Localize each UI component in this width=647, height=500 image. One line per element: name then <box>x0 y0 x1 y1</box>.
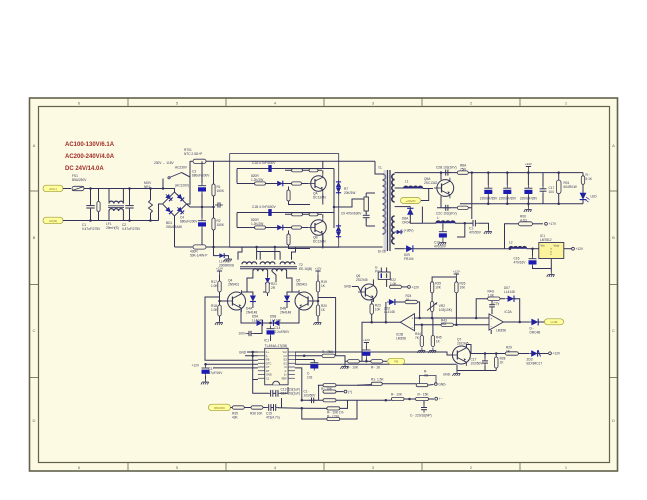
wire C12 gnd <box>205 376 207 379</box>
svg-text:1.0K: 1.0K <box>211 284 218 288</box>
junction NR1 bottom <box>149 219 152 222</box>
capacitor C1B body <box>269 209 272 216</box>
svg-text:+17V: +17V <box>549 222 557 226</box>
resistor R5B <box>309 213 318 216</box>
svg-text:LM358: LM358 <box>396 336 406 340</box>
wire Q5 base <box>310 300 319 302</box>
svg-text:2SC1342: 2SC1342 <box>424 181 438 185</box>
svg-text:20K/3W: 20K/3W <box>344 191 355 195</box>
resistor R0 bleeder <box>97 202 100 212</box>
resistor R40 <box>322 354 335 357</box>
vertical link right pins <box>294 352 296 364</box>
junction snubber right <box>471 171 474 174</box>
wire C13 bot lead <box>506 196 508 204</box>
svg-text:C1B 4.7nF/600V: C1B 4.7nF/600V <box>252 205 276 209</box>
svg-text:2N5401: 2N5401 <box>228 282 239 286</box>
wire ACL to fuse <box>63 188 71 190</box>
svg-text:LL4148: LL4148 <box>252 318 263 322</box>
wire R18 gnd <box>219 316 221 321</box>
transistor Q6 <box>358 282 377 302</box>
svg-text:DRC4B: DRC4B <box>530 330 541 334</box>
svg-text:C2B 103(1KV): C2B 103(1KV) <box>436 166 457 170</box>
inductor L3 <box>509 241 527 249</box>
svg-text:IC2A: IC2A <box>505 310 513 314</box>
wire sec tap3 <box>395 206 411 208</box>
wire W1 link to T1 <box>366 192 375 194</box>
diode D6 bleed <box>217 253 226 258</box>
capacitor C1 <box>86 203 94 211</box>
wire cellA base row <box>237 183 308 185</box>
wire QB emitter <box>322 237 324 248</box>
wire stub down left <box>457 223 465 237</box>
wire bleed to gnd <box>224 256 228 258</box>
junction C1 bottom <box>89 219 92 222</box>
junction row400 b <box>301 399 304 402</box>
resistor R6B <box>287 234 290 245</box>
svg-text:DC12AN: DC12AN <box>313 239 326 243</box>
wire IC2A minus col <box>490 330 492 334</box>
wire C3 column <box>201 161 203 183</box>
resistor R53 <box>327 407 340 410</box>
wire R24 down <box>417 302 419 318</box>
ground under C12 <box>201 379 209 384</box>
svg-text:2200uF/35V: 2200uF/35V <box>520 197 538 201</box>
wire R17 top <box>219 275 221 281</box>
bridge diode D-d <box>175 205 185 215</box>
inductor LF1 core <box>108 206 124 208</box>
wire Q5A emitter down <box>440 196 442 208</box>
wire U2 out to R22 <box>386 279 388 287</box>
svg-text:50K-1/4W·P: 50K-1/4W·P <box>190 253 207 257</box>
svg-text:DC 24V/14.0A: DC 24V/14.0A <box>65 166 104 172</box>
svg-text:(+): (+) <box>348 390 352 394</box>
svg-text:2200uF/35V: 2200uF/35V <box>480 197 498 201</box>
diode D13 <box>272 320 282 326</box>
wire T2 top bus b <box>256 247 258 260</box>
svg-text:AC100-130V/6.1A: AC100-130V/6.1A <box>65 142 115 148</box>
net label DRV24 <box>401 198 421 204</box>
diode D09 <box>404 245 415 252</box>
wire C9 down <box>365 219 367 226</box>
junction pin1 <box>251 351 254 354</box>
transistor Q5A <box>434 178 454 199</box>
power +24V flag <box>525 162 532 171</box>
diode D2A <box>275 181 285 187</box>
wire C21 bot <box>484 366 486 371</box>
optocoupler U2 body <box>378 272 390 279</box>
svg-text:FB: FB <box>394 360 398 364</box>
wire cellA em res <box>288 187 290 191</box>
junction bleed branch <box>212 246 215 249</box>
wire LF1 bottom right lead <box>122 211 124 221</box>
svg-text:10K: 10K <box>375 307 382 311</box>
svg-text:DC12AN: DC12AN <box>313 195 326 199</box>
svg-text:230V ← 115V: 230V ← 115V <box>154 161 174 165</box>
junction IC2B out <box>385 321 388 324</box>
wire T2 bot lead c <box>272 271 276 282</box>
net label ONOFF <box>209 404 231 411</box>
capacitor C12 <box>202 365 210 376</box>
wire R21 bottom <box>267 293 269 296</box>
svg-text:+12V: +12V <box>576 247 584 251</box>
svg-text:75R: 75R <box>460 167 467 171</box>
wire L2a link <box>422 222 436 224</box>
switch SW1 contact <box>168 177 170 179</box>
resistor R52 <box>323 399 336 402</box>
svg-text:EI-28: EI-28 <box>378 250 386 254</box>
wire R35 to R36 <box>244 407 251 409</box>
wire cellA left drop <box>236 169 238 184</box>
svg-text:IC1: IC1 <box>264 339 269 343</box>
transformer T1 core hatch <box>384 170 387 251</box>
junction row plus a <box>418 317 421 320</box>
svg-text:TL494A-17(08): TL494A-17(08) <box>265 344 288 348</box>
bridge diode D-b <box>175 192 185 202</box>
svg-text:R·· 1K: R·· 1K <box>371 366 381 370</box>
wire cellB rc row <box>285 213 322 215</box>
wire C14 top lead <box>527 173 529 185</box>
net label FB out <box>545 319 564 325</box>
junction R41 R42 <box>365 360 368 363</box>
thermistor RT01 <box>193 159 206 163</box>
wire ACN filter bottom rail <box>63 220 159 222</box>
svg-text:2N4148: 2N4148 <box>280 310 291 314</box>
capacitor C1A <box>266 165 274 172</box>
svg-text:R·· 15K: R·· 15K <box>418 393 430 397</box>
wire R1 top lead <box>213 161 215 184</box>
ground Q7 <box>452 371 460 376</box>
terminal out s <box>435 397 443 401</box>
LED D61 <box>580 191 587 202</box>
junction C13 top <box>506 171 509 174</box>
wire R06 drop <box>505 224 511 249</box>
wire 7812 out <box>564 248 572 250</box>
svg-text:L1: L1 <box>405 180 409 184</box>
wire T2 top bus e <box>279 252 281 260</box>
capacitor C1A body <box>269 165 272 172</box>
terminal gnd s <box>434 382 446 386</box>
zener ZAb <box>336 186 341 195</box>
wire C3 to mid <box>201 194 203 219</box>
svg-text:1.0K: 1.0K <box>390 282 397 286</box>
resistor R25 <box>430 282 441 293</box>
wire R28 bot <box>495 368 497 371</box>
wire rail to RT02 <box>175 246 193 248</box>
wire D10 bottom <box>252 302 254 308</box>
svg-text:B5A/250V: B5A/250V <box>72 178 87 182</box>
resistor R5A <box>309 169 318 172</box>
junction halfbridge mid <box>333 206 336 209</box>
terminal +17V <box>545 222 557 226</box>
svg-text:R·· 75K: R·· 75K <box>322 350 334 354</box>
capacitor C2 <box>125 203 133 211</box>
wire Q5A collector up <box>440 173 442 180</box>
svg-text:AC200-240V/4.0A: AC200-240V/4.0A <box>65 154 115 160</box>
wire sec tap4 <box>395 248 404 250</box>
wire D16 to label <box>539 321 545 323</box>
wire NR1 top lead <box>150 189 152 201</box>
resistor R50 <box>323 384 336 387</box>
zener ZAa <box>336 180 341 189</box>
svg-text:Vin: Vin <box>541 244 545 248</box>
connector J2 ACN <box>43 217 63 224</box>
capacitor C14 output <box>524 185 532 196</box>
resistor R44 <box>420 336 423 347</box>
sheet outer border <box>30 98 618 471</box>
diode D8A <box>407 206 413 216</box>
svg-text:−: − <box>491 325 493 329</box>
wire R25 to VR <box>431 293 433 302</box>
wire R06 left <box>510 223 519 225</box>
svg-text:A: A <box>612 143 615 148</box>
wire U2 to Q6 <box>372 279 374 284</box>
power +12V right <box>314 266 321 275</box>
svg-text:+: + <box>491 317 493 321</box>
capacitor C13 output <box>503 185 511 196</box>
resistor R2A <box>255 182 266 185</box>
wire TL494 pin link left <box>253 352 258 380</box>
svg-text:+12V: +12V <box>363 338 370 342</box>
resistor R8A <box>457 171 468 174</box>
wire D8A down <box>410 215 422 223</box>
capacitor C18 mid <box>362 347 370 358</box>
svg-text:1.2K/2W: 1.2K/2W <box>251 178 263 182</box>
svg-text:2200uF/35V: 2200uF/35V <box>499 197 517 201</box>
resistor R29 <box>505 352 518 355</box>
wire col 3186 <box>318 385 320 400</box>
svg-text:+24V: +24V <box>525 162 532 166</box>
wire C2 bottom lead <box>129 209 131 221</box>
wire NR1 bottom lead <box>150 213 152 221</box>
wire LF1 top left lead <box>108 189 110 203</box>
junction q7 c b <box>495 352 498 355</box>
ground under R45 <box>428 348 436 353</box>
junction pin4 row <box>204 363 207 366</box>
svg-text:B: B <box>33 235 36 240</box>
wire R41 to R42 <box>360 360 371 362</box>
wire RT02 to bottom rail <box>206 246 375 248</box>
resistor R28 <box>494 357 505 369</box>
wire R31 top <box>558 173 560 180</box>
wire emitter row <box>241 310 299 323</box>
junction pin2 <box>251 355 254 358</box>
wire halfbridge mid node <box>333 169 335 229</box>
wire LF1 top right lead <box>122 189 124 204</box>
junction C14 bottom <box>527 203 530 206</box>
svg-text:150K: 150K <box>217 189 225 193</box>
power +12V mid <box>363 338 370 347</box>
junction q7 c a <box>484 352 487 355</box>
junction NR1 top <box>149 187 152 190</box>
wire U2 pin2 up <box>386 268 388 273</box>
wire R53 right <box>340 400 348 408</box>
wire QB collector <box>322 214 324 217</box>
resistor R23 <box>370 304 381 315</box>
resistor R46 <box>488 297 500 300</box>
wire amp row plus <box>415 317 490 319</box>
wire R23 down <box>371 314 373 322</box>
half-bridge module box <box>230 154 339 248</box>
svg-text:C2: C2 <box>283 354 287 358</box>
power +12V left <box>216 266 223 275</box>
diode D07 <box>506 296 516 302</box>
resistor R54 <box>327 417 340 420</box>
wire Q6 emitter <box>372 299 374 304</box>
svg-text:+12V: +12V <box>192 364 200 368</box>
svg-text:FB: FB <box>266 358 270 362</box>
wire C2 top lead <box>129 189 131 205</box>
wire sec tap2 to L1 <box>395 187 404 189</box>
capacitor C22 <box>309 398 317 404</box>
wire pin4 row <box>206 363 258 365</box>
svg-text:E2: E2 <box>284 358 288 362</box>
svg-text:470/16V: 470/16V <box>514 260 527 264</box>
junction C1 top <box>89 187 92 190</box>
transformer T2 bottom winding 1 <box>253 269 268 271</box>
svg-text:FR104: FR104 <box>404 257 414 261</box>
junction Q5A collector <box>440 171 443 174</box>
wire C14 down <box>270 336 272 341</box>
svg-text:R·· 10K: R·· 10K <box>391 393 403 397</box>
wire LED to rail <box>582 200 584 204</box>
svg-text:100n: 100n <box>239 332 246 336</box>
terminal +12V out <box>572 247 584 251</box>
wire C19 stub <box>313 360 315 361</box>
capacitor C13 timing <box>268 390 276 397</box>
wire cellA rc row <box>285 169 322 171</box>
wire cellA top <box>237 168 334 170</box>
junction C12 bottom <box>487 203 490 206</box>
wire pillar R26 <box>455 278 457 282</box>
wire D10 top <box>241 292 253 295</box>
wire R0 bottom lead <box>98 212 100 221</box>
transistor QB <box>308 218 327 238</box>
svg-text:1.2K/2W: 1.2K/2W <box>251 222 263 226</box>
ground under C10 <box>438 240 446 245</box>
junction row400 a <box>385 399 388 402</box>
svg-text:AC(N): AC(N) <box>49 219 57 223</box>
svg-text:C·· 220/16(NP): C·· 220/16(NP) <box>410 414 432 418</box>
wire C13 link <box>254 323 262 334</box>
wire T2 top bus d <box>274 247 276 260</box>
wire top rail to T1 <box>375 161 383 174</box>
thermistor RT02 <box>193 245 206 249</box>
svg-text:604R/1W: 604R/1W <box>564 185 577 189</box>
inductor LF1 bottom winding <box>109 209 123 211</box>
svg-text:C: C <box>612 328 615 333</box>
wire T2 bot lead a <box>242 271 253 292</box>
wire fb2 up <box>476 299 487 318</box>
rating text block <box>65 142 115 172</box>
wire pin5 row <box>213 367 258 369</box>
wire AC bottom into bridge <box>159 204 163 221</box>
svg-text:150K: 150K <box>217 223 225 227</box>
svg-text:−: − <box>412 326 414 330</box>
wire bottom rail to T1 <box>375 246 383 248</box>
transformer T2 top winding 3 <box>280 262 295 264</box>
svg-text:GND·: GND· <box>344 285 352 289</box>
wire +24V stub <box>527 171 529 173</box>
wire L1 junction up <box>421 189 429 201</box>
wire cellB top <box>237 212 334 214</box>
wire caps to IC <box>280 387 288 393</box>
ground under 7812 <box>547 272 555 277</box>
wire C11 to gnd branch <box>479 223 489 230</box>
svg-text:D: D <box>33 418 36 423</box>
transformer T1 secondary winding lower <box>392 216 395 244</box>
terminal +12V a <box>408 285 420 289</box>
svg-text:CT: CT <box>266 365 270 369</box>
wire T2 top bus a <box>238 247 242 260</box>
wire R45 col <box>432 318 434 336</box>
svg-text:10K: 10K <box>460 285 467 289</box>
connector J1 ACL <box>43 185 63 192</box>
junction T2 bus1 <box>255 246 258 249</box>
wire R2 bottom lead <box>213 230 215 247</box>
potentiometer VR2 <box>427 302 437 312</box>
wire onoff row down <box>302 408 327 419</box>
inductor LF1 top winding <box>109 201 123 203</box>
svg-text:AC(L): AC(L) <box>49 187 57 191</box>
wire T2 bot lead d <box>287 271 299 292</box>
wire C1 bottom lead <box>90 209 92 221</box>
wire R57 to R58 <box>404 398 415 400</box>
resistor R31 load <box>556 180 561 194</box>
diode D10 <box>250 294 256 304</box>
resistor R2 <box>212 218 215 230</box>
junction R31 top <box>557 171 560 174</box>
svg-text:5.1K: 5.1K <box>586 177 593 181</box>
resistor R06 <box>519 222 533 226</box>
resistor R20 <box>316 304 327 316</box>
svg-text:103/50V: 103/50V <box>304 393 317 397</box>
svg-text:Vcc: Vcc <box>282 350 287 354</box>
junction C14 top <box>527 171 530 174</box>
switch SW1 lever <box>170 173 182 178</box>
wire R56 to term <box>428 384 434 387</box>
capacitor C23 <box>421 405 427 413</box>
wire R40 jog <box>336 356 347 362</box>
wire IC2A out <box>503 321 529 323</box>
wire feedback loop from driver <box>205 297 258 360</box>
svg-text:GND: GND <box>239 351 247 355</box>
svg-text:CR04: CR04 <box>402 220 410 224</box>
svg-text:332: 332 <box>441 322 447 326</box>
svg-text:10K: 10K <box>435 285 442 289</box>
wire fb up <box>385 302 387 322</box>
wire R26 down <box>455 293 457 325</box>
wire L3 to 7812 <box>527 248 539 250</box>
wire R19 R20 link <box>317 292 319 305</box>
terminal +12V b <box>549 352 561 356</box>
junction T2 bus2 <box>274 246 277 249</box>
resistor R42 <box>371 360 383 363</box>
resistor R43 <box>441 323 453 326</box>
resistor R56 <box>416 384 428 387</box>
svg-text:LL4148: LL4148 <box>270 318 281 322</box>
wire gnd stub r40 <box>344 361 346 364</box>
wire D7 down <box>263 284 268 292</box>
svg-text:Vout: Vout <box>554 244 560 248</box>
capacitor C20 <box>489 302 495 310</box>
capacitor C17 output <box>540 186 547 194</box>
capacitor C21 <box>482 358 488 366</box>
junction R31 bottom <box>557 203 560 206</box>
svg-text:C2C 103(1KV): C2C 103(1KV) <box>436 212 457 216</box>
wire rail to RT01 <box>190 160 193 162</box>
junction C12 top <box>487 171 490 174</box>
svg-text:103: 103 <box>307 375 313 379</box>
